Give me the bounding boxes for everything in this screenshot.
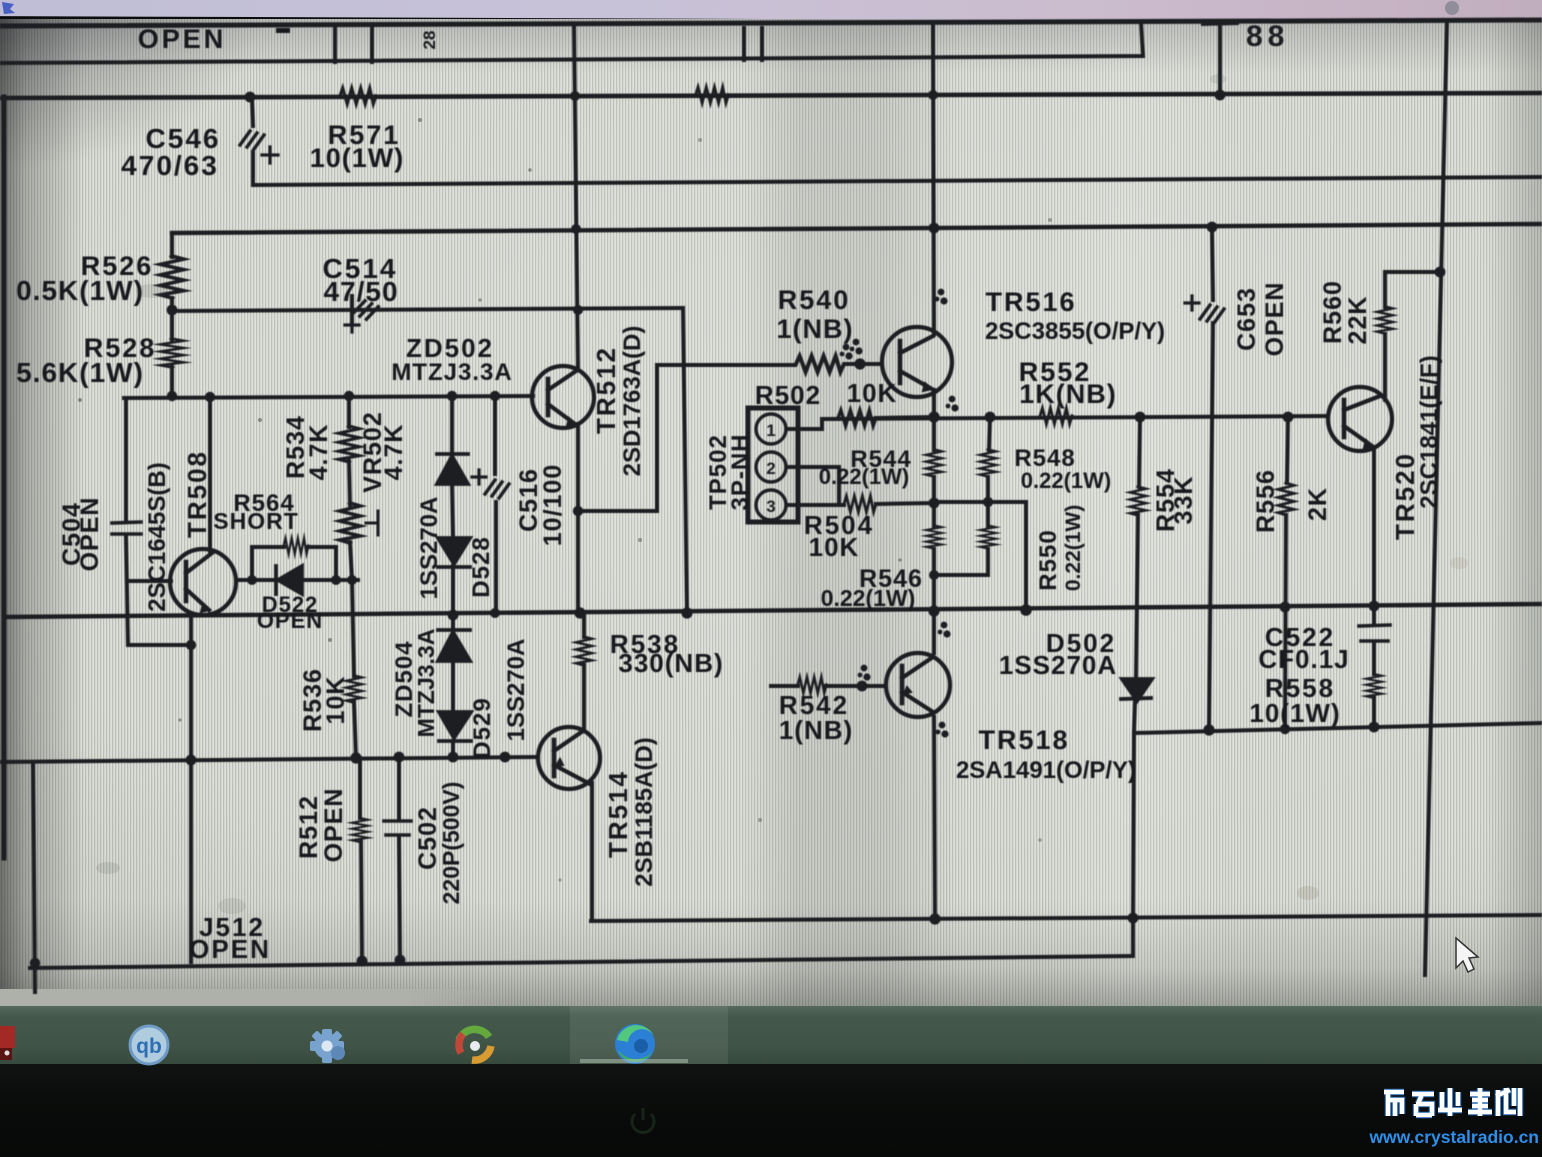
wire: C504 branch x126 with corner to emitter [126, 398, 191, 645]
mouse cursor [1456, 938, 1478, 972]
pin mark specks TR518 top [938, 622, 951, 638]
pin mark specks TR516 emitter [946, 396, 959, 412]
potentiometer VR502 [340, 503, 361, 543]
capacitor C504 open [112, 522, 141, 534]
zener ZD504 [438, 628, 470, 632]
wire: R548/R550 chain x988 [988, 417, 990, 575]
wire: C546 vertical x253 top [252, 97, 253, 185]
transistor TR516 [882, 327, 952, 397]
resistor R548 [980, 449, 996, 476]
diode D529 [439, 712, 471, 738]
capacitor C653 open polarized [1200, 305, 1224, 323]
transistor TR514 pnp [538, 727, 600, 789]
wire: vertical J512 branch x33 [33, 762, 35, 992]
wire: left frame border [2, 97, 7, 858]
taskbar icon swirl [459, 1029, 491, 1060]
wire: line y310 from R526 node to corner x683 [172, 308, 683, 311]
wire: TR518 base line R542 [771, 684, 885, 688]
wire: vertical x576 from top to TR512 collector [574, 24, 578, 370]
taskbar icon settings gear [310, 1029, 345, 1063]
diode D528 [438, 538, 470, 564]
resistor R512 [352, 818, 368, 842]
zener ZD502 [437, 452, 468, 456]
resistor R564 [284, 538, 309, 554]
transistor TR512 [532, 366, 594, 428]
capacitor C514 polarized on y310 [350, 296, 354, 324]
wire: short verticals in OPEN band [335, 25, 762, 62]
wire: bottom rail yB 968 [30, 956, 1133, 968]
wire: bottom-right line y733-723 [1134, 723, 1542, 733]
wire: R564 short box [252, 547, 336, 580]
wire: R534/VR502/R536 chain x351 [349, 396, 356, 758]
transistor TR518 pnp [886, 653, 950, 717]
wire: R512 branch x361 [360, 758, 362, 961]
wire: TR514 emitter path [590, 783, 594, 920]
wire: TR508 collector stub x210 [208, 396, 212, 551]
wire: diode ladder vertical x453 [452, 396, 453, 757]
resistor R558 [1366, 674, 1382, 698]
capacitor C546 polarized [240, 131, 264, 149]
diode D522 [274, 566, 278, 594]
wire: TP502 pin1 stub and R502 line [788, 417, 934, 429]
capacitor C516 polarized [485, 480, 509, 498]
wire: emitter rail yA 921 [591, 915, 1542, 921]
watermark glyphs [1384, 1088, 1520, 1116]
resistor R504 [844, 496, 876, 512]
transistor TR508 [170, 549, 236, 615]
wire: TP502 pin3 line R504 [788, 503, 934, 505]
wire: node y575 link [934, 573, 988, 577]
taskbar red icon fragment [0, 1026, 15, 1048]
wire: R560 branch with corner to right border [1385, 272, 1440, 400]
resistor R540 [796, 356, 844, 372]
wire: node y502 cross link [934, 502, 1026, 610]
wire: right border slanted vertical [1425, 20, 1447, 975]
wire: C516 branch x495 [495, 396, 496, 613]
resistor R560 [1377, 306, 1393, 333]
pin mark specks R542 node [858, 665, 871, 681]
resistor R528 [160, 339, 183, 368]
wire: vertical x934 from top to TR516 collector [933, 24, 934, 334]
wire: base line y758 [0, 757, 538, 762]
wire: C502 branch x399 [399, 757, 400, 960]
resistor R526 [160, 256, 183, 298]
diode D502 [1122, 679, 1152, 701]
wire: rail y230 full width [172, 224, 1542, 233]
pin mark specks TR518 bottom [936, 722, 949, 738]
transistor TR520 [1328, 387, 1392, 451]
resistor R534 [339, 426, 360, 462]
wire: R554/D502 vertical x1137 [1134, 417, 1140, 733]
pin mark specks TR516 base [850, 339, 863, 355]
resistor R502 [838, 410, 876, 426]
monitor power glyph [632, 1108, 654, 1133]
junction dots [245, 92, 256, 103]
wire: emitter node line y417 [822, 416, 1328, 419]
capacitor C522 film [1359, 625, 1390, 641]
wire: R556 branch x1286 [1285, 417, 1288, 730]
wire: TP502 pin2 stub with corner [788, 467, 839, 505]
resistor R554 [1130, 487, 1146, 516]
resistor R536 [346, 675, 362, 702]
resistor R571 [340, 88, 376, 104]
wire: T-cap vertical x1220 [1203, 23, 1237, 95]
wire: TR518 collector stub [932, 611, 936, 653]
wire: long vertical x1212 C653 [1209, 228, 1213, 730]
resistor R550 [980, 525, 996, 548]
wire: x1133 vertical railA to railB [1133, 733, 1134, 956]
pin mark specks TR516 top [935, 289, 948, 305]
resistor R538 [576, 637, 592, 666]
wire: rail y183 from C546 box [255, 177, 1542, 185]
wire: TR508 emitter vertical x191 [189, 614, 193, 962]
wire: top border line [0, 20, 1542, 26]
paper smudges and dust [78, 74, 1468, 914]
wire: long ground line y613 full width [4, 604, 1542, 617]
resistor R544 [926, 449, 942, 476]
resistor R552 [1040, 408, 1072, 424]
titlebar gray blob [1445, 1, 1459, 15]
wire: upper bus y60 with jog up at x1141 [0, 22, 1143, 63]
wire: TR516 base feed from TR512 emitter [578, 364, 882, 511]
wire: R540 base line left part [771, 363, 795, 367]
wire: node line y396 left [124, 396, 533, 398]
resistor R556 [1278, 483, 1294, 515]
wire: +B rail y97 full width [0, 93, 1542, 98]
titlebar blue glyph top-left [2, 2, 15, 14]
pin mark specks R540 node [840, 344, 853, 360]
svg-text:www.crystalradio.cn: www.crystalradio.cn [1368, 1127, 1539, 1147]
wire: TR520 emitter / C522 / R558 chain x1374 [1372, 450, 1376, 727]
resistor R546 [926, 525, 942, 548]
wire: D522 link wire y580 [236, 578, 358, 582]
capacitor C502 [384, 821, 411, 835]
taskbar icon edge [615, 1024, 655, 1064]
wire: y310 corner down to ground x685 [683, 308, 687, 613]
wire: TR508 base stub [128, 579, 171, 583]
wire: TR516 emitter down / R544 / R546 chain x934 [932, 390, 936, 611]
connector TP502 3P-NH [748, 408, 798, 522]
svg-text:qb: qb [136, 1035, 162, 1058]
resistor R542 [798, 677, 827, 693]
resistor (unlabeled) on y97 bus [696, 87, 729, 103]
taskbar icon qb [130, 1026, 168, 1064]
wire: R526/R528 chain x172 [170, 233, 174, 396]
small dash mark [276, 28, 290, 33]
wire: TR518 emitter down [934, 717, 935, 919]
wire: TR512 emitter vertical to ground line [576, 424, 580, 613]
wire: TR514 collector R538 stub [582, 613, 586, 728]
